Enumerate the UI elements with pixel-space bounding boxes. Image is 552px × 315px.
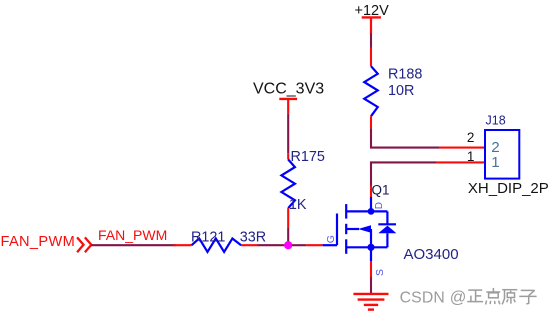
- pin Q1 drain: [370, 186, 372, 198]
- svg-text:R188: R188: [388, 66, 422, 82]
- power VCC_3V3: [253, 80, 324, 113]
- svg-text:AO3400: AO3400: [404, 246, 459, 263]
- svg-text:G: G: [325, 235, 337, 243]
- watermark char Zi: [519, 290, 536, 304]
- svg-text:S: S: [374, 269, 386, 276]
- svg-text:33R: 33R: [240, 230, 266, 246]
- svg-text:FAN_PWM: FAN_PWM: [98, 227, 167, 243]
- watermark char Dian: [486, 288, 501, 305]
- wire source to ground: [370, 277, 372, 293]
- svg-text:2: 2: [467, 130, 475, 145]
- svg-text:1: 1: [467, 149, 475, 164]
- resistor R188: [364, 48, 378, 129]
- svg-text:FAN_PWM: FAN_PWM: [1, 234, 76, 250]
- wire VCC_3V3 to R175: [287, 114, 289, 154]
- svg-text:J18: J18: [486, 113, 506, 127]
- svg-text:Q1: Q1: [372, 183, 390, 198]
- svg-text:R121: R121: [191, 230, 225, 246]
- resistor R121: [174, 238, 258, 252]
- junction gate node: [284, 241, 292, 249]
- resistor R175: [281, 153, 295, 227]
- svg-text:XH_DIP_2P: XH_DIP_2P: [468, 180, 549, 197]
- svg-text:CSDN: CSDN: [400, 290, 445, 307]
- svg-text:@: @: [450, 288, 467, 306]
- wire port to R121: [91, 244, 176, 246]
- svg-text:1K: 1K: [289, 197, 307, 213]
- wire junction to Q1 gate pin: [292, 244, 306, 246]
- wire R188 to J18 pin 2: [371, 128, 439, 147]
- watermark char Yuan: [502, 290, 517, 305]
- pin J18.2: [439, 147, 485, 149]
- power +12V: [355, 3, 390, 33]
- wire Q1 drain to J18 pin 1: [371, 162, 436, 185]
- svg-text:R175: R175: [291, 149, 325, 165]
- wire R121 to junction: [258, 244, 293, 246]
- connector J18: [485, 130, 519, 179]
- watermark char Zheng: [467, 290, 483, 302]
- pin Q1 source: [370, 261, 372, 277]
- transistor Q1: [323, 197, 397, 261]
- pin J18.1: [436, 161, 485, 163]
- wire +12V to R188: [370, 33, 372, 48]
- svg-text:D: D: [374, 202, 385, 209]
- svg-text:10R: 10R: [388, 83, 414, 99]
- wire R175 to junction: [287, 227, 289, 244]
- port FAN_PWM: [1, 234, 92, 252]
- svg-text:VCC_3V3: VCC_3V3: [253, 80, 324, 97]
- ground: [353, 294, 388, 310]
- pin Q1 gate: [306, 244, 322, 246]
- svg-text:1: 1: [491, 154, 499, 171]
